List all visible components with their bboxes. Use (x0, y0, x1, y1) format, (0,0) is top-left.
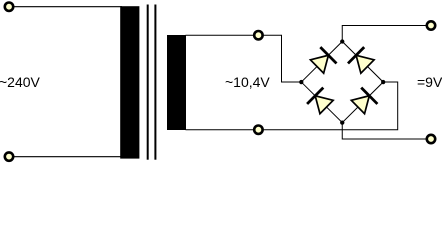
node right junction (381, 80, 385, 84)
terminal secondary bottom (254, 126, 262, 134)
terminal secondary top (254, 31, 262, 39)
terminal output minus (427, 135, 435, 143)
wire plus output (342, 26, 428, 42)
diode D3 bottom-left (307, 88, 335, 116)
terminal top-left (5, 3, 13, 11)
transformer core line 2 (154, 5, 156, 160)
transformer secondary winding (167, 35, 186, 130)
wire secondary bottom (186, 82, 398, 130)
node bottom junction (340, 120, 344, 124)
label ~10,4V (225, 75, 270, 89)
wire secondary top (186, 35, 302, 82)
wire minus output (342, 123, 428, 139)
label ~240V (0, 75, 40, 89)
wire primary bottom (11, 156, 122, 158)
diode D4 bottom-right (350, 88, 378, 116)
diode D1 top-left (309, 47, 337, 75)
diode D2 top-right (348, 47, 376, 75)
label =9V (417, 75, 442, 89)
wire bridge diamond (301, 42, 383, 123)
node top junction (340, 39, 344, 43)
transformer primary winding (120, 6, 139, 158)
node left junction (299, 80, 303, 84)
transformer core line 1 (147, 5, 149, 160)
terminal bottom-left (5, 152, 13, 160)
terminal output plus (427, 21, 435, 29)
wire primary top (11, 6, 122, 8)
